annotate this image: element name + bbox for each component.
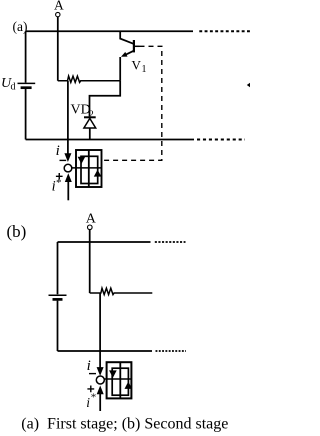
summing node circle (stage b) xyxy=(96,376,104,384)
dashed control line from base to converter xyxy=(104,46,162,160)
svg-text:V: V xyxy=(132,57,142,72)
svg-text:i: i xyxy=(86,395,90,410)
converter up arrowhead (stage b) xyxy=(125,382,133,389)
mark at right edge (stage a) xyxy=(247,83,250,87)
summing node circle (stage a) xyxy=(64,164,72,172)
wire: node A down to resistor row (stage a) xyxy=(57,17,59,81)
wire: left rail (stage b) xyxy=(57,242,59,351)
converter down arrowhead (stage b) xyxy=(109,370,117,377)
wire: top rail (stage b) xyxy=(58,241,151,243)
battery short plate (stage b) xyxy=(53,298,63,301)
node A (stage b) terminal circle xyxy=(88,225,93,230)
converter box inner loop (stage a) xyxy=(81,156,98,183)
dotted continuation of top rail (stage a) xyxy=(199,30,250,32)
wire: current i drop from row to node circle (stage b) xyxy=(99,293,101,369)
converter box center divider (stage b) xyxy=(119,362,121,398)
svg-text:*: * xyxy=(56,177,62,189)
minus sign (stage a) xyxy=(60,159,67,161)
wire: i* lead below node (stage a) xyxy=(67,180,69,200)
svg-text:A: A xyxy=(86,211,97,226)
svg-text:(b): (b) xyxy=(7,222,27,241)
svg-text:i: i xyxy=(87,358,91,374)
transistor V1 emitter arrowhead xyxy=(121,52,128,57)
converter box crossing line (stage b) xyxy=(104,378,131,380)
converter box crossing line (stage a) xyxy=(72,167,102,169)
converter down arrowhead (stage a) xyxy=(78,157,86,164)
minus sign (stage b) xyxy=(89,373,96,375)
wire: left rail (stage a) xyxy=(25,31,27,139)
svg-text:*: * xyxy=(91,392,97,404)
dotted continuation of top rail (stage b) xyxy=(155,241,186,243)
transistor V1 base lead xyxy=(135,45,140,47)
wire: L from row down-left to diode (stage a) xyxy=(90,81,121,117)
wire: diode down to bottom rail xyxy=(89,128,91,140)
resistor R (stage b) with zigzag xyxy=(90,288,153,294)
converter box center divider (stage a) xyxy=(88,150,90,187)
resistor R (stage a) with zigzag xyxy=(58,76,120,82)
wire: bottom rail (stage a) xyxy=(26,139,194,141)
converter box outer (stage b) xyxy=(107,362,132,398)
battery Ud long plate xyxy=(18,82,36,84)
wire: current i drop from row to node circle (stage a) xyxy=(67,81,69,156)
plus sign (stage b) xyxy=(87,386,94,393)
svg-text:d: d xyxy=(11,82,16,93)
arrowhead current i (stage a) xyxy=(64,153,71,162)
svg-text:(a) First stage; (b) Second s: (a) First stage; (b) Second stage xyxy=(21,415,228,432)
dotted continuation of bottom rail (stage b) xyxy=(156,350,187,352)
dotted continuation of bottom rail (stage a) xyxy=(197,139,245,141)
wire: i* lead below node (stage b) xyxy=(99,393,101,412)
plus sign (stage a) xyxy=(56,173,63,180)
wire: top rail (stage a) xyxy=(26,30,193,32)
arrowhead current i* up (stage b) xyxy=(97,386,104,395)
arrowhead current i (stage b) xyxy=(97,367,104,376)
transistor V1 emitter wire xyxy=(124,51,134,56)
diode VD2 cathode bar xyxy=(84,116,96,118)
arrowhead current i* up (stage a) xyxy=(65,173,72,182)
wire: bottom rail (stage b) xyxy=(58,350,153,352)
battery long plate (stage b) xyxy=(49,294,67,296)
wire: emitter down to resistor row xyxy=(119,57,121,81)
converter box outer (stage a) xyxy=(76,150,102,187)
diode VD2 triangle xyxy=(84,118,96,128)
svg-text:i: i xyxy=(56,143,60,159)
transistor V1 collector wire xyxy=(120,31,133,43)
transistor V1 base bar xyxy=(133,40,135,52)
svg-text:VD: VD xyxy=(71,103,91,118)
converter box inner loop (stage b) xyxy=(112,368,128,395)
converter up arrowhead (stage a) xyxy=(94,170,102,177)
svg-text:A: A xyxy=(54,0,64,12)
wire: node A down to resistor row (stage b) xyxy=(89,230,91,293)
svg-text:1: 1 xyxy=(142,64,147,75)
battery Ud short plate xyxy=(21,86,32,89)
node A (stage a) terminal circle xyxy=(56,12,60,16)
